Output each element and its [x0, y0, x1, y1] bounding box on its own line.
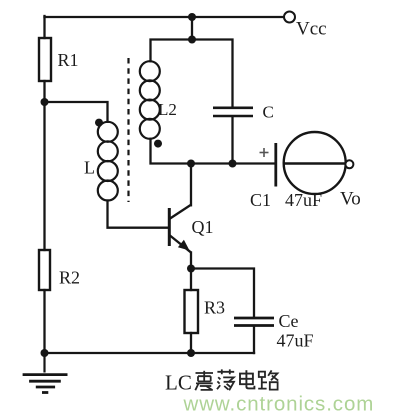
- wire mid rail L2-to-C1: [151, 139, 275, 164]
- caption char dian: [240, 370, 254, 388]
- caption char zhen: [195, 371, 213, 390]
- svg-text:R3: R3: [204, 298, 225, 318]
- wire rail2 to C branch: [192, 40, 233, 108]
- wire R3 bottom to rail: [190, 333, 192, 353]
- wire node to Ce branch: [191, 269, 254, 318]
- wire node A to inductor L top: [45, 102, 108, 122]
- polarity plus of C1: [260, 148, 269, 157]
- inductor L: [98, 122, 118, 201]
- capacitor C1 plate: [274, 143, 277, 187]
- capacitor Ce: [234, 318, 274, 326]
- svg-text:Vcc: Vcc: [296, 19, 327, 40]
- node below R1: [41, 98, 49, 106]
- wire R2 bottom to ground rail: [43, 290, 45, 353]
- caption char dang: [217, 369, 234, 390]
- wire C bottom to mid rail: [231, 117, 233, 164]
- svg-text:R1: R1: [58, 50, 79, 70]
- caption char lu: [258, 370, 278, 389]
- capacitor C: [213, 108, 253, 116]
- node mid rail collector: [187, 160, 195, 168]
- wire collector drop: [190, 164, 192, 206]
- node mid rail C branch: [229, 160, 237, 168]
- node R3 bottom rail: [187, 349, 195, 357]
- wire node to R3: [190, 269, 192, 291]
- svg-text:C: C: [263, 103, 274, 122]
- svg-text:L2: L2: [158, 100, 177, 119]
- svg-text:L: L: [84, 158, 95, 178]
- wire left drop to R1: [43, 16, 45, 38]
- inductor L2: [140, 61, 160, 139]
- node rail2: [188, 36, 196, 44]
- wire Ce bottom to rail: [253, 327, 255, 354]
- ground: [23, 353, 68, 393]
- svg-text:Q1: Q1: [192, 217, 214, 237]
- node ground rail left: [41, 349, 49, 357]
- wire emitter to node: [190, 253, 192, 269]
- node top rail: [188, 13, 196, 21]
- wire top rail: [45, 16, 285, 18]
- core dashed line: [127, 58, 129, 202]
- resistor R2: [39, 250, 50, 290]
- phase dot of L2: [154, 140, 162, 148]
- svg-text:C1: C1: [250, 190, 271, 210]
- resistor R3: [185, 290, 199, 333]
- svg-text:www.cntronics.com: www.cntronics.com: [183, 393, 375, 416]
- svg-text:Vo: Vo: [340, 189, 361, 210]
- wire inductor L bottom to base: [108, 201, 168, 228]
- wire R1 bottom to R2 top: [43, 81, 45, 250]
- output diameter line: [284, 162, 346, 164]
- phase dot of L: [95, 119, 103, 127]
- svg-text:Ce: Ce: [279, 311, 299, 331]
- svg-text:LC: LC: [165, 371, 192, 395]
- svg-text:R2: R2: [59, 268, 80, 288]
- resistor R1: [39, 38, 51, 81]
- wire L2 feed from rail2: [151, 40, 193, 62]
- output transducer circle: [284, 132, 346, 194]
- node emitter: [187, 265, 195, 273]
- wire bottom rail: [45, 352, 255, 354]
- transistor Q1: [169, 205, 191, 252]
- terminal Vo: [345, 160, 353, 168]
- svg-text:47uF: 47uF: [277, 331, 314, 351]
- wire vertical tie top rails: [191, 17, 193, 40]
- terminal Vcc: [284, 12, 295, 23]
